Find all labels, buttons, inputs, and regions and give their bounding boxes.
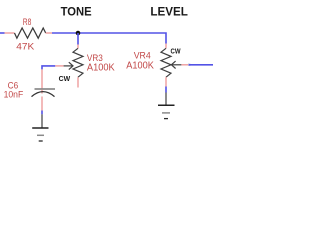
svg-text:VR4: VR4: [134, 50, 151, 60]
svg-text:TONE: TONE: [61, 5, 92, 19]
svg-text:R8: R8: [23, 17, 32, 28]
node TONE junction: [76, 31, 81, 36]
svg-text:LEVEL: LEVEL: [150, 5, 188, 19]
svg-text:CW: CW: [59, 74, 71, 83]
svg-text:10nF: 10nF: [4, 90, 24, 101]
resistor R8: [5, 28, 53, 38]
svg-text:A100K: A100K: [87, 62, 115, 73]
svg-text:A100K: A100K: [126, 60, 154, 71]
wire VR3 wiper to C6 top: [42, 66, 55, 70]
wire VR4 wiper to right edge: [189, 64, 213, 66]
svg-text:47K: 47K: [16, 42, 35, 53]
ground below VR4: [158, 93, 175, 119]
wire R8 to TONE node to top of VR4: [52, 33, 166, 44]
wire VR4 bottom to ground: [165, 87, 167, 93]
pin end marker VR4 wiper: [188, 64, 190, 66]
wire input left to R8: [0, 32, 5, 34]
capacitor C6: [32, 69, 56, 110]
potentiometer VR3: [55, 45, 83, 88]
wire TONE node down to VR3: [77, 33, 79, 45]
ground below C6: [32, 114, 48, 141]
svg-text:CW: CW: [171, 47, 181, 56]
potentiometer VR4: [161, 44, 189, 87]
wire C6 bottom to ground: [41, 111, 43, 115]
